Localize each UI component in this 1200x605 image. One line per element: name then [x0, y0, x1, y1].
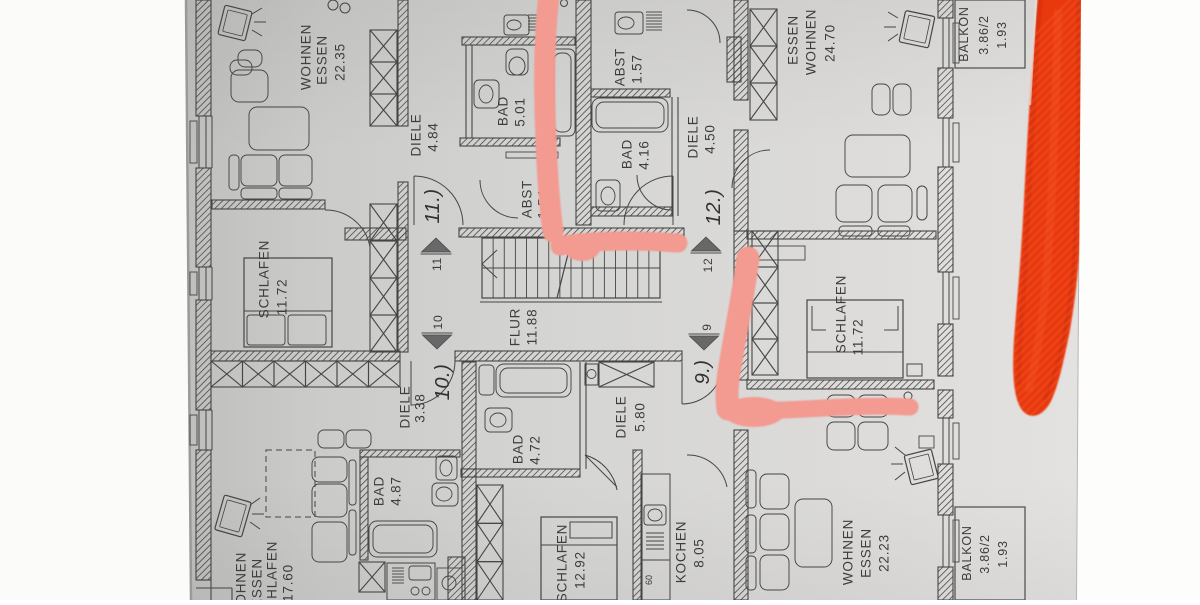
- svg-text:SCHLAFEN: SCHLAFEN: [555, 524, 570, 600]
- svg-text:4.84: 4.84: [426, 122, 441, 151]
- svg-text:DIELE: DIELE: [398, 385, 413, 428]
- svg-text:11: 11: [430, 257, 444, 271]
- svg-text:11.88: 11.88: [525, 309, 540, 346]
- svg-text:4.87: 4.87: [389, 476, 404, 505]
- svg-text:DIELE: DIELE: [614, 395, 629, 438]
- svg-text:11.): 11.): [422, 189, 444, 224]
- svg-text:10.): 10.): [432, 364, 454, 400]
- svg-text:12.): 12.): [703, 189, 725, 225]
- svg-text:10: 10: [431, 315, 445, 330]
- svg-text:5.01: 5.01: [513, 97, 528, 126]
- svg-text:9: 9: [700, 323, 714, 330]
- svg-text:22.35: 22.35: [333, 43, 348, 81]
- svg-text:SCHLAFEN: SCHLAFEN: [265, 541, 280, 600]
- svg-text:3.86/2: 3.86/2: [977, 15, 991, 55]
- svg-text:ESSEN: ESSEN: [250, 558, 265, 600]
- svg-text:SCHLAFEN: SCHLAFEN: [257, 240, 272, 318]
- svg-text:12.92: 12.92: [573, 551, 588, 589]
- svg-text:3.86/2: 3.86/2: [978, 534, 992, 574]
- svg-text:4.16: 4.16: [637, 140, 652, 169]
- svg-text:3.38: 3.38: [413, 393, 428, 422]
- svg-text:ABST: ABST: [613, 48, 628, 86]
- svg-text:17.60: 17.60: [281, 564, 296, 600]
- svg-text:ESSEN: ESSEN: [786, 15, 801, 65]
- svg-text:WOHNEN: WOHNEN: [234, 552, 249, 600]
- svg-text:24.70: 24.70: [823, 24, 838, 62]
- svg-text:22.23: 22.23: [877, 534, 892, 572]
- svg-text:4.72: 4.72: [528, 435, 543, 464]
- svg-text:60: 60: [644, 575, 654, 585]
- svg-text:1.93: 1.93: [996, 540, 1010, 568]
- svg-text:12: 12: [701, 258, 715, 273]
- svg-text:WOHNEN: WOHNEN: [841, 519, 856, 585]
- svg-text:BAD: BAD: [511, 434, 526, 464]
- svg-text:DIELE: DIELE: [686, 115, 701, 158]
- svg-text:5.80: 5.80: [633, 402, 648, 431]
- svg-text:WOHNEN: WOHNEN: [299, 24, 314, 90]
- svg-text:BAD: BAD: [620, 139, 635, 169]
- svg-text:ABST: ABST: [520, 180, 535, 218]
- svg-text:SCHLAFEN: SCHLAFEN: [834, 275, 849, 353]
- svg-text:4.50: 4.50: [703, 124, 718, 153]
- svg-text:11.72: 11.72: [851, 319, 866, 356]
- svg-text:BAD: BAD: [496, 96, 511, 126]
- svg-text:BAD: BAD: [372, 476, 387, 506]
- svg-text:1.57: 1.57: [630, 54, 645, 83]
- svg-text:1.93: 1.93: [995, 21, 1009, 49]
- svg-text:ESSEN: ESSEN: [859, 528, 874, 578]
- svg-text:DIELE: DIELE: [409, 113, 424, 156]
- svg-text:FLUR: FLUR: [508, 308, 523, 346]
- svg-text:8.05: 8.05: [692, 538, 707, 567]
- svg-text:9.): 9.): [692, 360, 714, 385]
- svg-text:KOCHEN: KOCHEN: [674, 521, 689, 584]
- svg-text:BALKON: BALKON: [960, 525, 974, 581]
- svg-text:BALKON: BALKON: [957, 6, 971, 62]
- svg-text:ESSEN: ESSEN: [315, 35, 330, 85]
- svg-text:WOHNEN: WOHNEN: [804, 9, 819, 75]
- svg-text:11.72: 11.72: [275, 279, 290, 316]
